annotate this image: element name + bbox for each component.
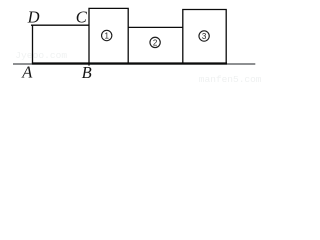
svg-text:2: 2 bbox=[153, 38, 158, 47]
svg-text:Jyeoo.com: Jyeoo.com bbox=[15, 50, 67, 61]
svg-text:D: D bbox=[27, 7, 40, 26]
svg-text:1: 1 bbox=[104, 31, 109, 40]
svg-text:3: 3 bbox=[202, 32, 207, 41]
svg-text:A: A bbox=[21, 63, 33, 82]
svg-text:C: C bbox=[76, 8, 88, 27]
svg-text:B: B bbox=[82, 63, 92, 82]
svg-text:manfen5.com: manfen5.com bbox=[199, 74, 262, 85]
